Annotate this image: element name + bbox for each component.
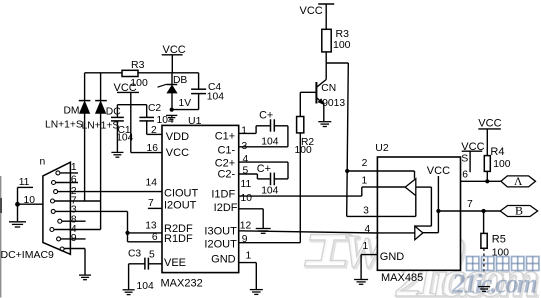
svg-text:104: 104 [157, 115, 174, 126]
svg-text:1: 1 [362, 175, 368, 186]
svg-text:GND: GND [211, 254, 236, 266]
svg-text:11: 11 [241, 179, 252, 190]
svg-text:6: 6 [152, 232, 158, 243]
svg-text:100: 100 [493, 159, 510, 170]
svg-text:21ic.com: 21ic.com [451, 269, 537, 298]
svg-text:CIOUT: CIOUT [164, 188, 199, 200]
svg-text:C2: C2 [148, 103, 161, 114]
svg-text:5: 5 [149, 249, 155, 260]
svg-text:6: 6 [71, 174, 77, 185]
svg-text:100: 100 [492, 247, 509, 258]
svg-text:9013: 9013 [322, 98, 345, 109]
svg-text:DC: DC [106, 106, 121, 117]
svg-text:2: 2 [151, 125, 157, 136]
svg-text:1: 1 [363, 241, 369, 252]
svg-text:12: 12 [240, 220, 252, 231]
svg-text:MAX485: MAX485 [381, 272, 423, 284]
svg-text:DC+IMAC9: DC+IMAC9 [1, 249, 55, 261]
svg-text:10: 10 [24, 195, 36, 206]
svg-text:1: 1 [71, 162, 77, 173]
svg-text:I2OUT: I2OUT [164, 200, 197, 212]
svg-text:R1DF: R1DF [164, 233, 193, 245]
svg-text:C1+: C1+ [215, 131, 236, 143]
svg-text:DB: DB [173, 75, 187, 86]
svg-text:10: 10 [241, 193, 253, 204]
svg-text:VCC: VCC [166, 147, 189, 159]
svg-text:VCC: VCC [300, 5, 323, 17]
svg-text:CN: CN [321, 83, 336, 94]
svg-text:C+: C+ [257, 163, 271, 175]
svg-text:16: 16 [147, 143, 159, 154]
svg-text:5: 5 [243, 165, 249, 176]
svg-text:1: 1 [241, 126, 247, 137]
svg-text:MAX232: MAX232 [161, 277, 203, 289]
svg-text:I2OUT: I2OUT [204, 239, 237, 251]
svg-text:104: 104 [261, 186, 278, 197]
svg-text:VDD: VDD [166, 131, 189, 143]
svg-text:U2: U2 [375, 142, 389, 154]
svg-text:VCC: VCC [461, 141, 484, 153]
svg-text:LN+1+S: LN+1+S [45, 120, 83, 131]
svg-text:VCC: VCC [478, 117, 501, 129]
svg-text:I1DF: I1DF [211, 188, 235, 200]
svg-text:n: n [40, 156, 46, 167]
svg-text:9: 9 [242, 234, 248, 245]
svg-text:104: 104 [261, 136, 278, 147]
svg-text:3: 3 [242, 141, 248, 152]
svg-text:6: 6 [462, 169, 468, 180]
svg-text:S: S [461, 152, 468, 164]
svg-text:104: 104 [207, 92, 224, 103]
svg-text:I2DF: I2DF [214, 202, 238, 214]
svg-text:C2-: C2- [217, 169, 235, 181]
svg-text:R3: R3 [131, 59, 145, 71]
svg-text:4: 4 [243, 154, 249, 165]
svg-text:B: B [515, 204, 523, 218]
svg-text:4: 4 [365, 224, 371, 235]
svg-text:C+: C+ [259, 109, 273, 121]
svg-text:Λ: Λ [514, 176, 523, 188]
svg-text:100: 100 [295, 145, 312, 156]
svg-text:GND: GND [380, 251, 405, 263]
svg-text:R4: R4 [490, 146, 504, 158]
svg-text:R5: R5 [492, 234, 506, 246]
svg-text:2: 2 [362, 158, 368, 169]
svg-text:11: 11 [19, 177, 30, 188]
svg-text:7: 7 [467, 199, 473, 210]
svg-text:LN+1+S: LN+1+S [82, 121, 120, 132]
svg-text:I3OUT: I3OUT [204, 225, 237, 237]
svg-text:7: 7 [148, 198, 154, 209]
svg-text:1V: 1V [179, 98, 192, 109]
svg-text:VCC: VCC [427, 165, 450, 177]
svg-text:VCC: VCC [114, 82, 137, 94]
svg-text:13: 13 [145, 221, 157, 232]
svg-text:DM: DM [64, 105, 80, 116]
svg-text:104: 104 [116, 133, 133, 144]
svg-text:C1-: C1- [217, 144, 235, 156]
svg-text:U1: U1 [188, 115, 202, 127]
svg-text:3: 3 [363, 205, 369, 216]
svg-text:100: 100 [333, 39, 351, 51]
svg-text:14: 14 [146, 178, 158, 189]
svg-text:1: 1 [246, 250, 252, 261]
svg-text:104: 104 [137, 281, 154, 292]
svg-text:VEE: VEE [164, 257, 186, 269]
svg-text:C3: C3 [128, 249, 141, 260]
svg-text:VCC: VCC [163, 44, 186, 56]
svg-text:9: 9 [71, 233, 77, 244]
